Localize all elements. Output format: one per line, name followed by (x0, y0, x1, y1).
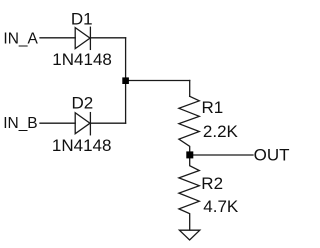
svg-text:1N4148: 1N4148 (52, 136, 112, 155)
svg-text:IN_A: IN_A (3, 30, 38, 47)
svg-text:IN_B: IN_B (3, 115, 37, 132)
svg-text:R1: R1 (202, 98, 224, 117)
svg-text:D2: D2 (72, 93, 94, 112)
svg-text:1N4148: 1N4148 (52, 50, 112, 69)
svg-text:D1: D1 (71, 9, 93, 28)
svg-text:4.7K: 4.7K (203, 197, 239, 216)
svg-text:OUT: OUT (254, 146, 290, 165)
svg-text:2.2K: 2.2K (203, 122, 239, 141)
svg-text:R2: R2 (201, 174, 223, 193)
